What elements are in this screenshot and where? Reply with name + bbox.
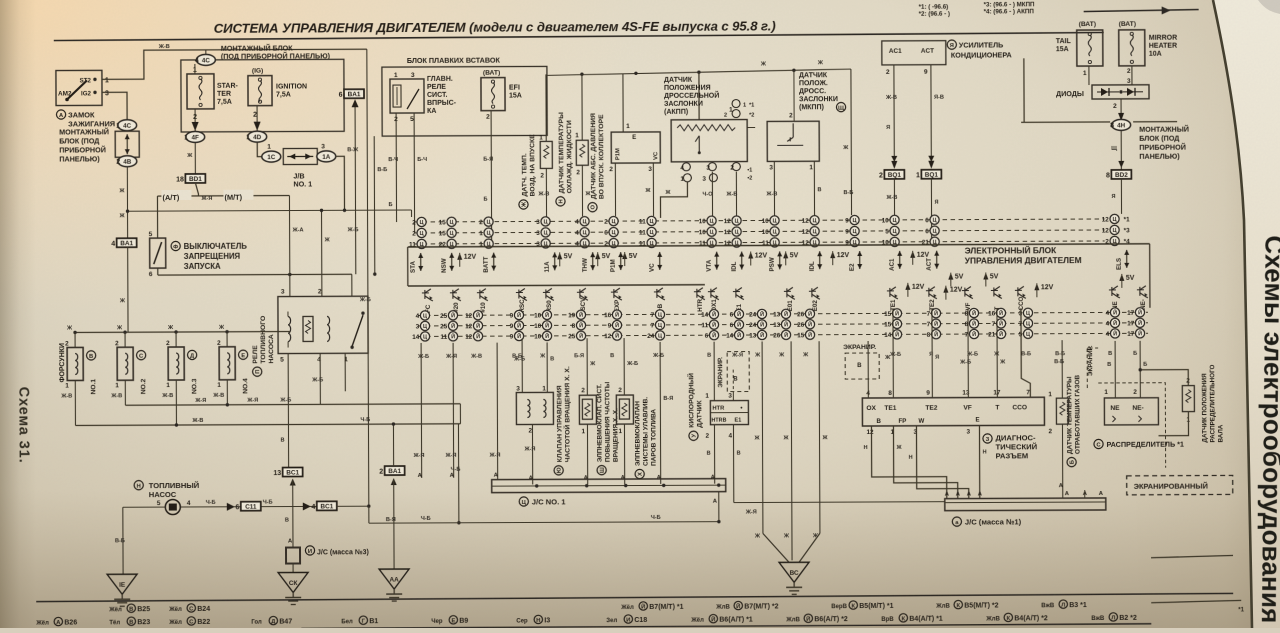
injector feed rail	[75, 331, 290, 334]
label РАСПРЕДЕЛИТЕЛЬ	[1094, 439, 1103, 448]
wire switch rail down	[351, 274, 353, 296]
wire 4F down to BD1	[194, 143, 196, 174]
wire EFI fuse down to BATT	[490, 111, 493, 244]
+B wire down	[659, 342, 662, 484]
left rail down	[156, 196, 158, 238]
wire BA1 down to injector rail	[127, 247, 129, 332]
right margin rule lower	[1151, 600, 1241, 602]
lower bus rows	[418, 312, 1148, 315]
page fold shading left of page edge	[1120, 0, 1252, 628]
wire down to BA1	[126, 167, 128, 238]
page edge curve	[1213, 0, 1252, 628]
wire 4H down	[1120, 131, 1122, 170]
sensor feed rail	[546, 69, 851, 75]
oxygen wires down	[713, 425, 715, 484]
legend separator	[36, 593, 1233, 601]
connector 1(4C) left	[118, 120, 137, 131]
switch bottom rail	[157, 268, 159, 275]
ground IE	[107, 574, 137, 594]
ground AA	[379, 569, 409, 589]
air temp sensor resistor	[545, 74, 547, 141]
connector 4(4C) on box	[196, 54, 215, 65]
AC1 wire down	[893, 65, 895, 159]
ACT wire down	[930, 65, 932, 159]
arrows out of montage block	[194, 109, 196, 132]
wire BD2 to bus	[1120, 179, 1122, 214]
pump wire to vertical rail	[337, 505, 369, 507]
title underline	[54, 32, 1104, 40]
ECU right edge	[1149, 244, 1151, 308]
montage block rail right	[1021, 121, 1110, 123]
wire BA1 down to AA	[393, 480, 395, 569]
wire relay pin5 down to ECU bus	[413, 113, 416, 233]
fuel pump label	[134, 481, 143, 490]
TPS right pins	[747, 126, 755, 128]
diag down wires	[871, 426, 946, 499]
oxygen wires up	[713, 342, 715, 401]
relay pin wires	[287, 354, 289, 468]
label УСИЛИТЕЛЬ КОНДИЦИОНЕРА	[947, 40, 956, 49]
top right rule with arrow	[1084, 10, 1199, 12]
wire from 1A down	[335, 156, 344, 210]
wire relay pin2 down to ECU bus	[395, 113, 397, 222]
connector 2(4B) left	[118, 156, 137, 167]
ground CK	[292, 564, 294, 573]
pump wires	[123, 506, 165, 508]
legend second separator	[301, 624, 1151, 629]
EFI main relay	[390, 79, 424, 113]
coolant temp sensor resistor	[581, 74, 583, 140]
ECU bottom pin row drivers	[422, 289, 433, 301]
connector 1(4F)	[186, 131, 205, 142]
injector return wires	[74, 380, 76, 425]
tag 2 BA1 with arrow	[385, 466, 405, 475]
rail drop to E2	[850, 69, 853, 215]
TPS wires to bus	[660, 182, 687, 218]
ECU top boundary	[408, 244, 1150, 247]
tag 18 BD1	[185, 174, 205, 183]
shielded label box	[1127, 475, 1233, 494]
tag 6 BA1 with arrow	[344, 89, 364, 98]
bus verticals to J/C NO.1 left	[420, 343, 423, 478]
TPS AKPP box	[671, 120, 747, 162]
ECU bottom-left boundary	[408, 285, 705, 286]
wire MT down to relay	[288, 196, 290, 297]
return rail drop	[457, 424, 459, 523]
tag 1 BQ1	[921, 170, 941, 179]
parallel feed wire	[373, 136, 376, 274]
TPS MKPP wires	[773, 161, 775, 215]
AT MT rail	[157, 195, 289, 198]
NE wires	[1114, 341, 1116, 398]
right margin rule upper	[1151, 555, 1233, 557]
connector 1(4D)	[248, 131, 267, 142]
AC box boundary wire	[1023, 58, 1025, 122]
tag 4 BC1 inline	[303, 502, 311, 510]
wire 4D to J/B	[257, 143, 262, 157]
cam sensor wires	[1140, 370, 1188, 386]
rail to JC NO1	[369, 522, 719, 524]
long rail x368	[367, 49, 369, 506]
inline connector 6 C11	[227, 503, 235, 511]
wire IG2 down left column	[102, 92, 127, 120]
wire stub to 4C	[205, 50, 207, 54]
funnel wires to BC	[761, 341, 764, 533]
injector feed stubs	[74, 332, 76, 347]
J/C NO.1 bus bar	[492, 479, 726, 493]
rail to TPS	[698, 72, 700, 119]
montage block box	[181, 59, 344, 132]
J/B NO.1 connectors 1C 1A	[262, 151, 281, 162]
tag 8 BD2	[1111, 170, 1131, 179]
label diagnostic	[983, 434, 992, 443]
next-page strip right of page edge	[1213, 0, 1280, 628]
connector 8(4H)	[1112, 119, 1131, 130]
wire BC1 down to JC ground3	[292, 481, 294, 548]
label ЗАМОК ЗАЖИГАНИЯ	[56, 110, 65, 119]
ignition switch A	[56, 70, 102, 105]
tag 2 BQ1	[884, 170, 904, 179]
long rail J/B to ECU	[128, 210, 412, 211]
fuse block box	[382, 66, 547, 136]
injector return rails	[125, 404, 460, 405]
wires ECU to diag connector	[867, 341, 869, 398]
fuse to diode wires	[1088, 66, 1090, 85]
tag 4 BA1	[117, 238, 137, 247]
wire from injector rail to BA1 tag	[392, 424, 394, 466]
wire BD1 to AT/MT rail	[195, 183, 198, 196]
map sensor wires down	[614, 163, 616, 216]
AC amplifier box	[882, 41, 946, 65]
wire rail to relay pin2	[321, 210, 323, 296]
E1 rail to JC ground1	[734, 501, 945, 504]
EGR wires	[1061, 340, 1063, 398]
upper bus rows	[415, 219, 1105, 222]
J/C масса3 box	[286, 547, 300, 563]
ground BC	[779, 562, 809, 582]
oxygen shield dashes	[727, 352, 749, 392]
wire montage to BA1	[343, 89, 345, 93]
wire into масса1 right	[1084, 490, 1086, 498]
ISC wires	[521, 339, 523, 393]
junction block pass-through left	[115, 131, 139, 157]
tag 13 BC1 with arrow	[283, 467, 303, 476]
wire from ST2 to top rail	[102, 49, 367, 79]
map sensor box	[622, 74, 624, 132]
